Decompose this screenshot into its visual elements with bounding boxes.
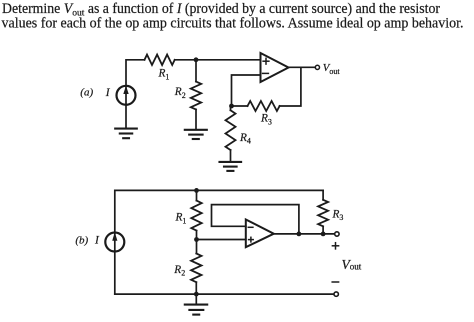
node R3/output junction (b) — [321, 232, 326, 237]
wire node to R2 (a) — [195, 60, 197, 82]
svg-text:I: I — [105, 87, 111, 99]
svg-text:R1: R1 — [158, 68, 170, 82]
svg-text:R4: R4 — [239, 132, 251, 146]
wire R1 to op-amp + input (a) — [175, 59, 261, 61]
svg-text:(a): (a) — [80, 87, 93, 99]
wire R3 to output (a) — [280, 67, 301, 106]
node at R1/R2 junction (b) — [194, 237, 199, 242]
resistor R3 (a) — [248, 101, 280, 111]
ground below R4 (a) — [220, 162, 242, 171]
resistor R3 (b) — [318, 200, 328, 227]
resistor R2 (b) — [191, 254, 201, 283]
wire op-amp output (b) — [274, 233, 334, 235]
wire R4 stub (a) — [230, 106, 232, 110]
output terminal Vout (a) — [315, 65, 319, 69]
ground below current source (a) — [115, 129, 137, 139]
node at R1/R2 junction (a) — [194, 57, 199, 62]
bottom rail wire (b) — [115, 293, 333, 295]
svg-text:R3: R3 — [260, 113, 272, 127]
wire R2 to bottom rail (b) — [195, 282, 197, 294]
resistor R2 (a) — [191, 82, 201, 110]
wire op-amp output (a) — [289, 66, 316, 68]
svg-text:I: I — [94, 234, 100, 246]
svg-text:R2: R2 — [174, 86, 186, 100]
current source I (a) — [117, 86, 136, 105]
op-amp U2 (b) — [246, 220, 274, 248]
op-amp U1 (a) — [261, 53, 289, 82]
wire bottom node to ground (b) — [195, 294, 197, 304]
svg-text:(b): (b) — [75, 234, 88, 246]
wire inverting input (a) — [232, 75, 261, 106]
wire top rail to R3 (b) — [322, 190, 324, 199]
wire R4 to ground (a) — [230, 150, 232, 161]
label minus terminal (b) — [332, 281, 338, 283]
ground symbol (b) — [185, 305, 207, 315]
node at bottom of R2 (b) — [194, 292, 199, 297]
svg-text:R3: R3 — [332, 208, 344, 222]
resistor R4 (a) — [226, 110, 236, 150]
ground below R2 (a) — [185, 130, 207, 139]
svg-text:R1: R1 — [175, 212, 187, 226]
wire node to R3 (a) — [232, 105, 248, 107]
current source I (b) — [105, 232, 124, 251]
wire top-left of (a): source to R1 — [126, 60, 145, 86]
svg-text:R2: R2 — [173, 264, 185, 278]
wire R3 to output node (b) — [322, 226, 324, 234]
node above R1 (b) — [194, 188, 199, 193]
wire top rail (b) — [115, 190, 323, 232]
label plus terminal (b) — [332, 243, 338, 249]
output terminal - (b) — [334, 292, 338, 296]
wire top node to R1 (b) — [196, 190, 198, 200]
wire from source to ground (a) — [125, 105, 127, 129]
output terminal + (b) — [335, 232, 339, 236]
wire noninverting input (b) — [197, 239, 246, 241]
wire source to bottom rail (b) — [114, 251, 116, 294]
wire inverting input feedback loop (b) — [212, 205, 299, 234]
node feedback/output junction (b) — [297, 232, 302, 237]
svg-text:Vout: Vout — [342, 257, 362, 272]
resistor R1 (a) — [145, 55, 175, 65]
wire R1 to node (b) — [196, 231, 198, 254]
wire R2 to ground (a) — [195, 110, 197, 130]
svg-text:values for each of the op amp: values for each of the op amp circuits t… — [2, 15, 464, 31]
svg-text:Vout: Vout — [323, 62, 341, 76]
resistor R1 (b) — [191, 201, 201, 231]
node at R3/R4 junction (a) — [229, 104, 234, 109]
